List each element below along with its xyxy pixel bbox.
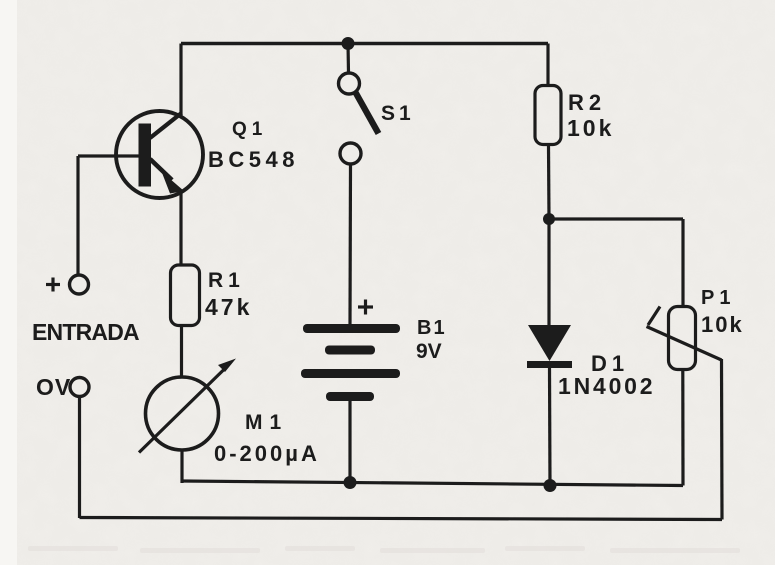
svg-text:10k: 10k [567, 115, 614, 141]
label plus sign battery [358, 300, 373, 315]
wire top horizontal bus [181, 42, 548, 46]
label plus sign input [46, 278, 60, 292]
svg-text:M1: M1 [245, 411, 288, 434]
wire P1 top lead [681, 219, 684, 306]
svg-text:1N4002: 1N4002 [558, 373, 655, 399]
svg-text:BC548: BC548 [208, 147, 299, 172]
faint print bleed-through band at bottom [28, 546, 740, 553]
junction battery bottom [344, 476, 357, 489]
wire bottom bus 2 [80, 518, 723, 520]
meter M1 [139, 359, 236, 453]
wire S1 to battery [348, 164, 352, 325]
wire input vertical [76, 156, 79, 276]
wire 0V vertical [78, 396, 81, 518]
svg-text:P1: P1 [701, 287, 735, 309]
battery B1 [301, 324, 400, 401]
svg-text:47k: 47k [205, 294, 252, 320]
svg-text:B1: B1 [417, 317, 447, 339]
transistor Q1 [116, 111, 203, 198]
svg-text:OV: OV [36, 374, 71, 400]
svg-text:S1: S1 [381, 102, 415, 125]
wire D1 top lead [547, 219, 550, 326]
wire R2 bottom lead [547, 146, 551, 219]
wire battery to bottom bus [348, 401, 351, 483]
junction top bus S1 [342, 37, 355, 50]
wire D1 bottom lead [548, 368, 552, 486]
junction R2 D1 P1 [543, 213, 555, 225]
wire R2 top lead [546, 44, 549, 86]
terminal 0V [70, 378, 89, 397]
potentiometer P1 [647, 307, 722, 370]
resistor R2 [535, 86, 561, 145]
terminal + ENTRADA [70, 275, 89, 294]
svg-text:9V: 9V [416, 340, 442, 363]
wire collector vertical from top bus [179, 44, 182, 118]
resistor R1 [171, 265, 200, 326]
diode D1 [527, 325, 572, 368]
wire junction to P1 horizontal [549, 217, 683, 220]
wire wiper vertical [720, 359, 724, 520]
svg-text:Q1: Q1 [232, 119, 267, 140]
svg-text:0-200µA: 0-200µA [214, 441, 320, 466]
junction D1 bottom bus [544, 479, 557, 492]
wire bottom bus 1 [182, 481, 683, 486]
wire P1 bottom lead [681, 371, 684, 486]
wire S1 top lead [346, 44, 350, 74]
svg-text:10k: 10k [701, 312, 744, 337]
switch S1 [339, 73, 379, 164]
wire M1 to bottom bus [180, 450, 183, 483]
wire emitter vertical [179, 192, 182, 265]
svg-text:R2: R2 [568, 90, 606, 115]
wire R1 to M1 [180, 327, 183, 378]
svg-text:ENTRADA: ENTRADA [32, 319, 139, 345]
wire base horizontal [78, 154, 140, 157]
svg-text:R1: R1 [208, 269, 245, 292]
